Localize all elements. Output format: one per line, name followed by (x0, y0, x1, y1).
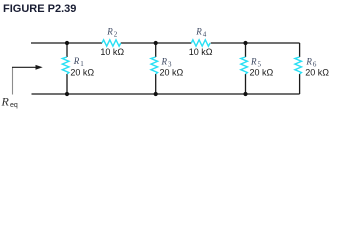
svg-text:2: 2 (114, 30, 118, 38)
svg-text:10 kΩ: 10 kΩ (189, 47, 213, 57)
svg-text:R: R (106, 26, 113, 36)
svg-text:R: R (73, 56, 80, 66)
svg-text:R: R (250, 56, 257, 66)
svg-text:eq: eq (10, 102, 18, 109)
svg-text:20 kΩ: 20 kΩ (160, 67, 184, 77)
svg-text:4: 4 (203, 30, 207, 38)
svg-text:20 kΩ: 20 kΩ (70, 67, 94, 77)
svg-text:10 kΩ: 10 kΩ (100, 47, 124, 57)
svg-text:R: R (1, 94, 10, 108)
svg-text:20 kΩ: 20 kΩ (250, 67, 274, 77)
svg-text:FIGURE P2.39: FIGURE P2.39 (3, 3, 76, 15)
svg-text:R: R (161, 56, 168, 66)
svg-text:20 kΩ: 20 kΩ (305, 68, 329, 78)
svg-text:R: R (195, 26, 202, 36)
svg-text:R: R (305, 57, 312, 67)
